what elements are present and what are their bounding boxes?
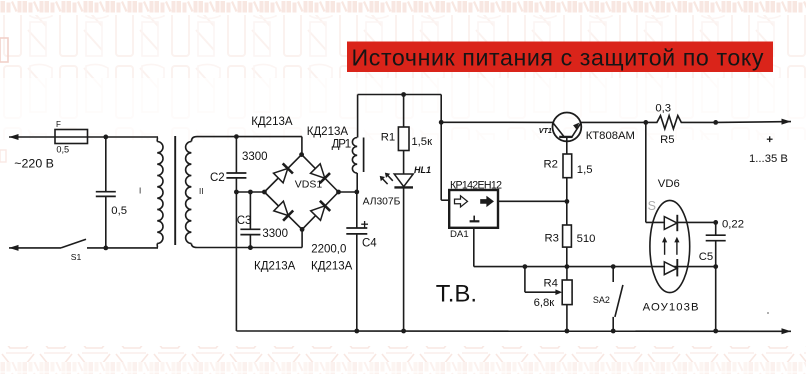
svg-text:VDS1: VDS1 <box>295 178 323 190</box>
svg-text:1...35 В: 1...35 В <box>749 153 788 165</box>
svg-text:C4: C4 <box>362 238 377 250</box>
svg-text:II: II <box>199 187 203 196</box>
svg-text:S1: S1 <box>71 252 82 262</box>
svg-text:SA2: SA2 <box>593 295 610 305</box>
svg-text:C2: C2 <box>210 172 225 184</box>
svg-text:КД213А: КД213А <box>307 126 349 138</box>
svg-text:R3: R3 <box>545 233 559 245</box>
svg-text:510: 510 <box>577 233 596 245</box>
svg-text:~220 В: ~220 В <box>14 157 54 171</box>
svg-text:КР142ЕН12: КР142ЕН12 <box>450 179 502 191</box>
svg-text:I: I <box>139 187 141 196</box>
svg-text:R1: R1 <box>381 132 395 144</box>
svg-text:VD6: VD6 <box>658 178 680 190</box>
svg-text:C3: C3 <box>237 215 252 227</box>
svg-text:F: F <box>56 120 61 129</box>
svg-text:C5: C5 <box>699 251 713 263</box>
svg-text:КД213А: КД213А <box>254 260 296 272</box>
svg-text:КТ808АМ: КТ808АМ <box>586 130 635 142</box>
svg-text:VT1: VT1 <box>539 126 552 135</box>
svg-text:0,22: 0,22 <box>722 219 744 231</box>
svg-text:6,8к: 6,8к <box>534 297 555 309</box>
svg-text:КД213А: КД213А <box>311 260 353 272</box>
svg-text:КД213А: КД213А <box>251 116 293 128</box>
svg-text:АОУ103В: АОУ103В <box>643 302 699 314</box>
svg-text:1,5к: 1,5к <box>411 136 432 148</box>
svg-text:HL1: HL1 <box>414 165 431 175</box>
svg-text:DA1: DA1 <box>450 229 469 240</box>
svg-text:3300: 3300 <box>262 228 288 240</box>
svg-text:0,3: 0,3 <box>655 103 671 115</box>
svg-text:R5: R5 <box>660 134 674 146</box>
svg-text:R2: R2 <box>544 159 558 171</box>
svg-text:3300: 3300 <box>242 151 268 163</box>
svg-text:R4: R4 <box>544 278 558 290</box>
svg-text:0,5: 0,5 <box>56 144 69 154</box>
svg-text:1,5: 1,5 <box>577 164 593 176</box>
svg-text:АЛ307Б: АЛ307Б <box>363 197 401 208</box>
svg-text:Источник питания с защитой по: Источник питания с защитой по току <box>352 45 764 71</box>
svg-text:S: S <box>648 199 656 213</box>
svg-text:0,5: 0,5 <box>111 205 127 217</box>
svg-text:ДР1: ДР1 <box>332 139 352 151</box>
svg-text:Т.В.: Т.В. <box>436 281 477 308</box>
svg-text:2200,0: 2200,0 <box>311 243 346 255</box>
